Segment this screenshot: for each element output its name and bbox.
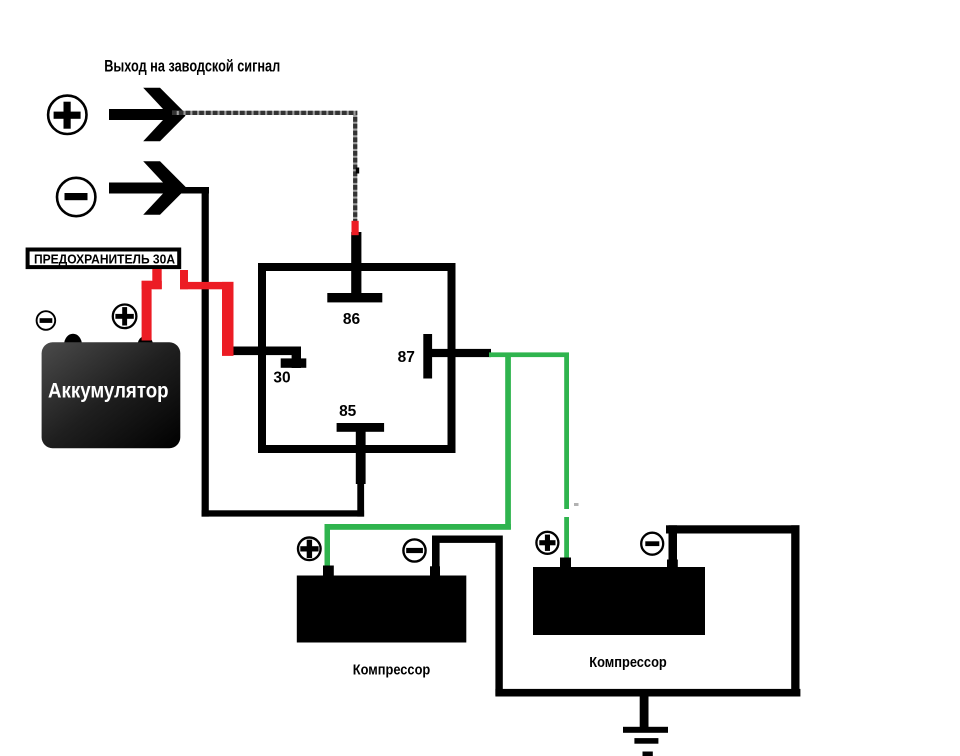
svg-text:Компрессор: Компрессор <box>589 655 667 671</box>
svg-text:Аккумулятор: Аккумулятор <box>48 379 169 403</box>
svg-text:86: 86 <box>343 311 361 328</box>
svg-text:85: 85 <box>339 403 357 420</box>
svg-text:ПРЕДОХРАНИТЕЛЬ 30А: ПРЕДОХРАНИТЕЛЬ 30А <box>34 252 176 267</box>
svg-text:Выход на заводской сигнал: Выход на заводской сигнал <box>104 58 280 76</box>
svg-text:30: 30 <box>273 370 290 387</box>
svg-text:87: 87 <box>398 349 415 366</box>
svg-text:Компрессор: Компрессор <box>353 663 431 679</box>
